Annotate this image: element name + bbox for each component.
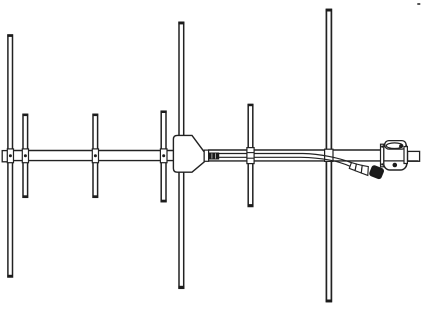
saddle bolt: [399, 144, 403, 148]
element E6 director tube: [326, 9, 332, 303]
element E3 director tube: [93, 114, 99, 198]
clamp C6 on E6: [325, 149, 333, 161]
mount internal boom line: [382, 160, 418, 162]
clamp C5 on E5: [247, 148, 254, 164]
balun output connector block: [209, 153, 220, 160]
element E2 director tube: [23, 114, 29, 198]
cable ferrule band 3: [361, 165, 368, 175]
clamp C1 on E1: [7, 149, 13, 163]
mount right flange: [404, 147, 407, 164]
coax connector body: [369, 165, 384, 179]
boom right section (horizontal tube): [208, 150, 385, 161]
element E1 reflector tube: [7, 34, 13, 277]
element E4 director tube: [161, 111, 167, 203]
balun housing: [173, 135, 204, 172]
boom left section (horizontal tube): [7, 151, 174, 161]
mount body: [384, 141, 407, 170]
cable ferrule band 1: [349, 163, 356, 171]
mount bottom bolt: [393, 163, 398, 168]
boom end cap: [2, 151, 7, 162]
clamp C4 on E4: [160, 149, 167, 163]
clamp C2 on E2: [22, 149, 28, 163]
corner speck: [417, 3, 420, 5]
coax cable from balun to connector: [219, 154, 352, 167]
clamp C3 on E3: [92, 149, 98, 163]
cable ferrule band 2: [355, 164, 362, 173]
mount left flange: [381, 144, 384, 167]
saddle oval: [386, 143, 402, 149]
driven element tube: [178, 22, 184, 289]
mast stub: [408, 151, 420, 161]
balun output neck: [204, 150, 208, 161]
element E5 director tube: [248, 104, 254, 207]
mount top saddle: [385, 141, 406, 150]
